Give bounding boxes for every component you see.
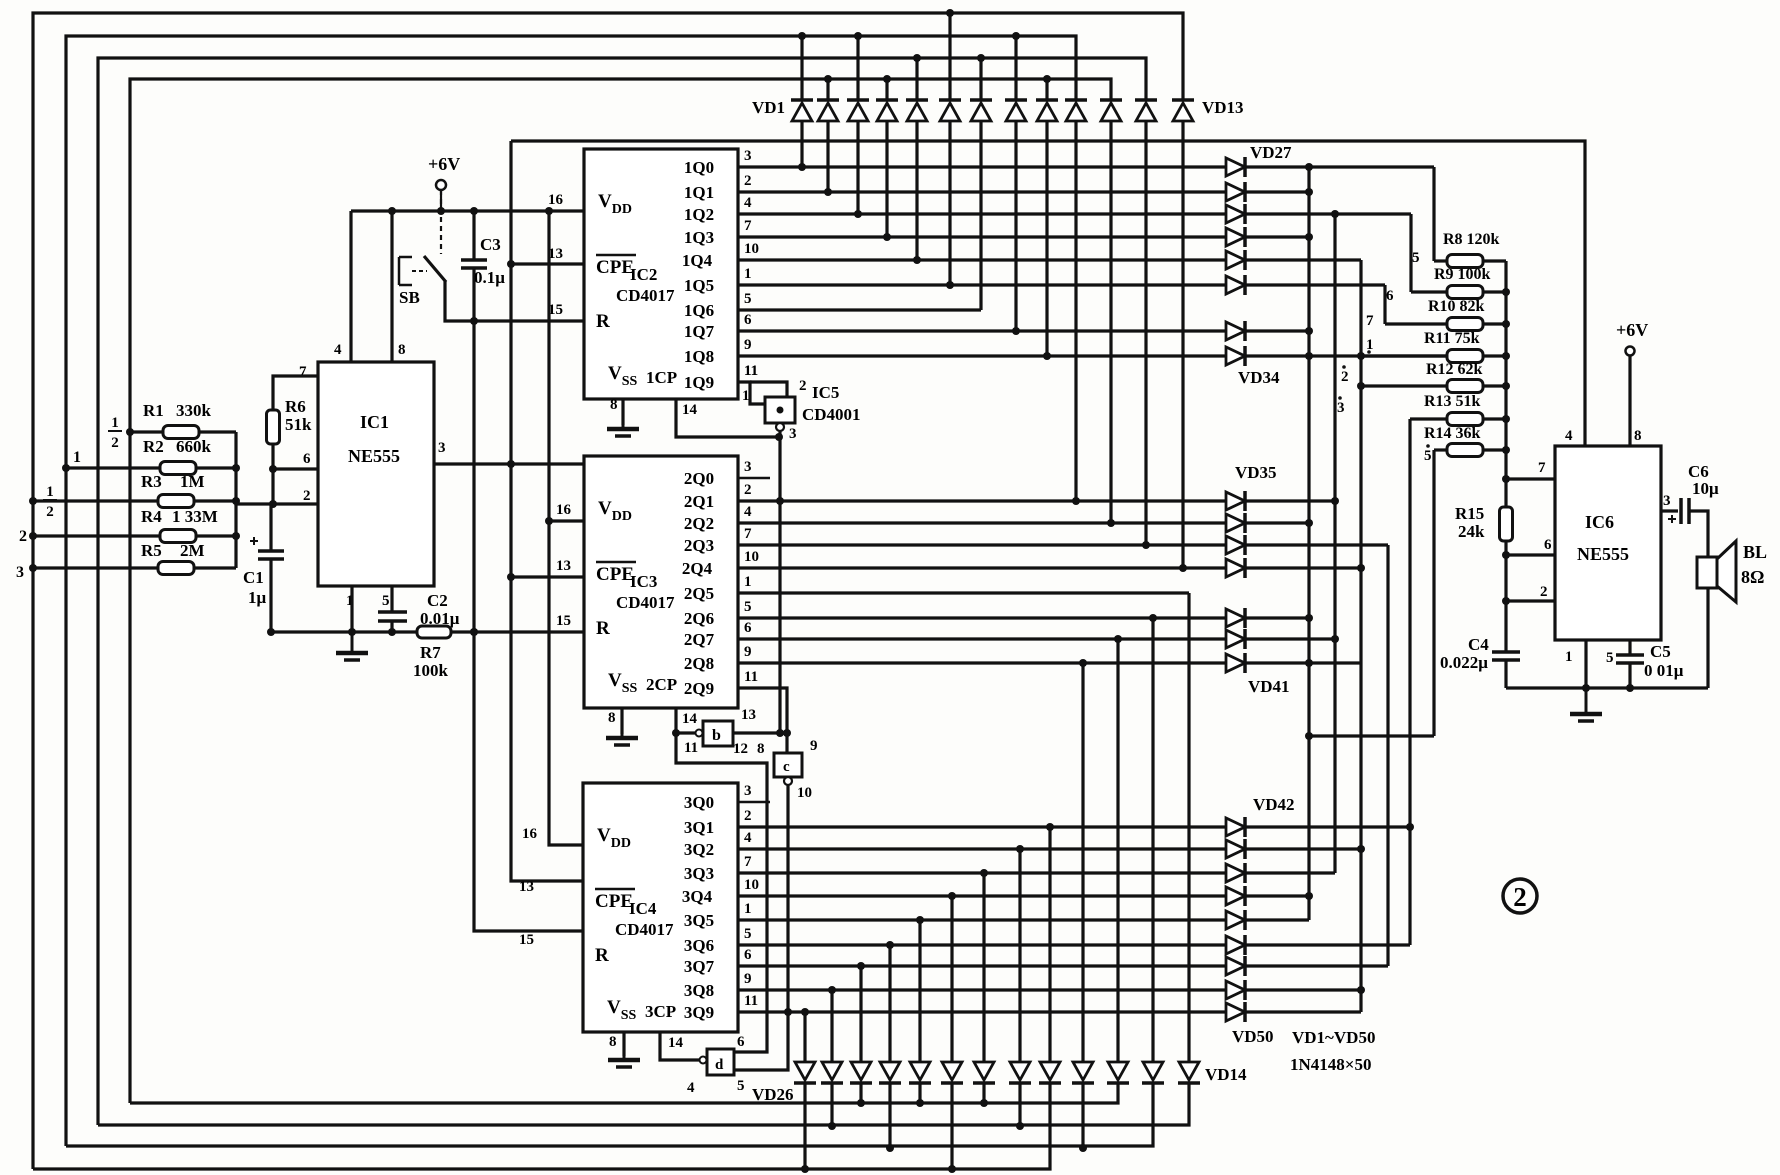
svg-text:7: 7 — [744, 854, 752, 870]
wire - VD1 anode to 1Q0 row — [800, 121, 803, 167]
speaker BL — [1697, 557, 1717, 588]
svg-text:R1: R1 — [143, 401, 164, 420]
wire - VD5 cathode stub — [915, 58, 918, 100]
svg-text:R6: R6 — [285, 397, 306, 416]
diode VD28 — [1226, 183, 1245, 201]
diode VD3 — [847, 98, 869, 102]
wire - loop 4 (left/top to VD2,VD4,VD9,VD11 bus) — [130, 79, 1111, 1103]
wire - VD2 anode to 1Q1 row — [826, 121, 829, 192]
wire - 3Q0 stub — [738, 801, 770, 804]
wire - 2Q0 stub — [738, 477, 770, 480]
node C3 ground-rail crossing — [470, 628, 478, 636]
svg-text:3: 3 — [744, 783, 752, 799]
svg-text:4: 4 — [744, 830, 752, 846]
diode VD44 — [1226, 864, 1245, 882]
svg-text:R: R — [595, 945, 609, 966]
wire - IC6 pin2 stub — [1506, 599, 1555, 602]
svg-text:12: 12 — [733, 741, 748, 757]
gate IC5a output bubble — [776, 423, 784, 431]
diode VD45 — [1226, 887, 1245, 905]
svg-text:VD42: VD42 — [1253, 795, 1295, 814]
svg-text:2CP: 2CP — [646, 675, 677, 694]
wire - R9 link (x1411) — [1409, 214, 1412, 292]
svg-text:6: 6 — [1544, 537, 1552, 553]
svg-text:5: 5 — [744, 599, 752, 615]
svg-text:IC2: IC2 — [630, 265, 657, 284]
wire - R11 left lead — [1361, 354, 1447, 357]
diode VD12 — [1135, 98, 1157, 102]
svg-text:11: 11 — [744, 669, 758, 685]
wire - collector bus A (x1309) — [1307, 167, 1310, 920]
svg-text:3Q5: 3Q5 — [684, 911, 714, 930]
junction dots bus C — [1357, 352, 1365, 994]
svg-text:VD1: VD1 — [752, 98, 785, 117]
wire - IC4 VSS stem — [622, 1032, 625, 1056]
svg-text:R4: R4 — [141, 507, 162, 526]
resistor R9 — [1447, 286, 1483, 299]
diode VD48 — [1226, 957, 1245, 975]
wire - C3 bottom lead down to IC4 R — [474, 268, 584, 931]
diode VD14 — [1179, 1062, 1199, 1080]
ground - IC2 VSS — [622, 425, 625, 429]
gate b input bubble — [696, 730, 703, 737]
diode VD4 — [876, 98, 898, 102]
node 2CP/chain — [672, 729, 680, 737]
wire - VD5 anode to 1Q4 row — [915, 121, 918, 260]
svg-text:11: 11 — [684, 740, 698, 756]
svg-text:1: 1 — [744, 901, 752, 917]
svg-text:3Q0: 3Q0 — [684, 793, 714, 812]
node pin3/CPE bus — [507, 460, 515, 468]
junction dots on bank bus — [232, 464, 240, 540]
svg-text:1M: 1M — [180, 472, 205, 491]
wire - VD15 to 2Q6 row — [1151, 618, 1154, 1062]
wire - R14 right lead — [1483, 448, 1506, 451]
svg-text:2: 2 — [744, 808, 752, 824]
wire - IC6 ground rail — [1506, 686, 1708, 689]
svg-text:3Q4: 3Q4 — [682, 887, 713, 906]
svg-text:+6V: +6V — [428, 154, 460, 174]
svg-text:c: c — [783, 759, 790, 775]
wire - 2Q8 row — [738, 661, 1361, 664]
wire - C5 bottom lead — [1628, 663, 1631, 688]
svg-text:5: 5 — [1424, 448, 1432, 464]
wire - IC1 pin4 up to VDD rail — [349, 211, 352, 362]
wire - pin2 node from bank — [236, 501, 318, 504]
junction dots on top bus lines — [798, 9, 1051, 83]
svg-text:2: 2 — [744, 173, 752, 189]
wire - R3 left lead — [33, 499, 158, 502]
junction dots VD10-VD13 anodes on 2Q rows — [1072, 497, 1187, 572]
wire - bus A to R14 bottom link — [1309, 734, 1434, 737]
svg-text:13: 13 — [519, 879, 534, 895]
svg-text:2: 2 — [111, 435, 119, 451]
node 2Q9/gate-b out — [783, 729, 791, 737]
svg-text:1Q0: 1Q0 — [684, 158, 714, 177]
gate IC5c box — [774, 753, 802, 777]
wire - VD9 cathode stub — [1045, 79, 1048, 100]
svg-text:0.022μ: 0.022μ — [1440, 653, 1488, 672]
diode VD38 — [1226, 559, 1245, 577]
svg-text:CPE: CPE — [596, 564, 634, 585]
junction dots VD17,VD16,VD15 on 2Q rows — [1079, 614, 1157, 667]
wire - 1Q3 row — [738, 235, 1309, 238]
wire - 2Q4 row — [738, 566, 1361, 569]
junction dots bus B — [1331, 210, 1339, 643]
wire - R13 right lead — [1483, 417, 1506, 420]
resistor R7 — [417, 626, 451, 638]
wire - VD22 to 3Q5 row — [918, 920, 921, 1062]
capacitor C2 — [378, 610, 407, 614]
wire - R3 right lead — [194, 499, 236, 502]
wire - R14 left lead — [1434, 448, 1447, 451]
wire - 3Q4 row — [738, 894, 1309, 897]
svg-text:1Q2: 1Q2 — [684, 205, 714, 224]
diode VD15 — [1143, 1062, 1163, 1080]
node R4-loop1 — [29, 532, 37, 540]
svg-text:VD27: VD27 — [1250, 143, 1292, 162]
svg-text:VD26: VD26 — [752, 1085, 794, 1104]
figure number circled 2 — [1503, 879, 1537, 913]
diode VD32 — [1226, 276, 1245, 294]
diode VD26 — [795, 1062, 815, 1080]
ground - IC6 — [1585, 688, 1588, 714]
capacitor C1 — [258, 549, 284, 553]
svg-text:6: 6 — [303, 451, 311, 467]
wire - 1Q8 row — [738, 354, 1449, 357]
diode VD49 — [1226, 981, 1245, 999]
wire - +6V to VDD rail — [440, 190, 442, 211]
diode VD20 — [974, 1062, 994, 1080]
gate IC5c output bubble — [784, 777, 792, 785]
svg-text:51k: 51k — [285, 415, 312, 434]
diode VD29 — [1226, 205, 1245, 223]
svg-text:5: 5 — [744, 926, 752, 942]
resistor R10 — [1447, 318, 1483, 331]
resistor R3 — [158, 495, 194, 508]
wire - VD1 cathode stub — [800, 36, 803, 100]
wire - VD21 to 3Q4 row — [950, 896, 953, 1062]
wire - R13 left lead — [1410, 417, 1447, 420]
wire - C6 to speaker — [1689, 511, 1708, 557]
op-amp U IC6 box (NE555) — [1555, 446, 1661, 640]
wire - VD3 cathode stub — [856, 36, 859, 100]
svg-text:IC5: IC5 — [812, 383, 839, 402]
svg-text:15: 15 — [556, 613, 571, 629]
wire - IC6 pin7 stub — [1506, 477, 1555, 480]
resistor R1 — [163, 426, 199, 439]
svg-text:2Q5: 2Q5 — [684, 584, 714, 603]
svg-text:R: R — [596, 618, 610, 639]
svg-text:13: 13 — [741, 707, 756, 723]
wire - IC3 pin16 stub — [549, 519, 584, 522]
wire - IC4 3CP to gate d — [660, 1032, 707, 1060]
diode VD35 — [1226, 492, 1245, 510]
wire - C2 bottom lead — [390, 621, 393, 632]
diode VD40 — [1226, 630, 1245, 648]
svg-text:1μ: 1μ — [248, 588, 267, 607]
wire - VD11 anode to 2Q2 row — [1109, 121, 1112, 523]
svg-text:VD14: VD14 — [1205, 1065, 1247, 1084]
svg-text:3Q1: 3Q1 — [684, 818, 714, 837]
wire - 2Q9 stub to node — [738, 688, 787, 753]
wire - 2Q2 row — [738, 521, 1309, 524]
svg-text:2Q0: 2Q0 — [684, 469, 714, 488]
wire - 2Q1 row — [738, 499, 1335, 502]
svg-text:R14 36k: R14 36k — [1424, 425, 1481, 442]
capacitor C4 — [1492, 652, 1520, 660]
svg-text:R9 100k: R9 100k — [1434, 266, 1491, 283]
wire - 1Q9 to gate a pin2 hook — [750, 382, 787, 397]
wire - 3Q9 row — [738, 1010, 1361, 1013]
wire - collector bus B (x1335) — [1333, 214, 1336, 873]
svg-text:6: 6 — [744, 947, 752, 963]
diode VD46 — [1226, 911, 1245, 929]
svg-text:0.1μ: 0.1μ — [474, 268, 505, 287]
svg-text:1Q9: 1Q9 — [684, 373, 714, 392]
wire - 1Q4 row — [738, 258, 1361, 261]
resistor R11 — [1447, 350, 1483, 363]
wire - VDD bus vertical — [549, 211, 584, 845]
wire - 3Q1 row — [738, 825, 1410, 828]
wire - VD20 to 3Q3 row — [982, 873, 985, 1062]
wire - IC2 1CP down — [676, 399, 779, 437]
wire - speaker bottom to rail — [1706, 588, 1709, 688]
svg-text:2M: 2M — [180, 541, 205, 560]
diode VD50 — [1226, 1003, 1245, 1021]
diode VD36 — [1226, 514, 1245, 532]
wire - C4 bottom to gnd rail — [1504, 660, 1507, 688]
wire - gate c output down to gate d — [733, 785, 788, 1070]
svg-text:IC3: IC3 — [630, 572, 657, 591]
resistor R5 — [158, 562, 194, 575]
svg-text:1Q1: 1Q1 — [684, 183, 714, 202]
svg-text:7: 7 — [744, 218, 752, 234]
svg-text:BL: BL — [1743, 542, 1767, 562]
wire - R12 right lead — [1483, 384, 1506, 387]
diode VD13 — [1172, 98, 1194, 102]
wire - bottom diode cathode stub — [888, 1083, 891, 1148]
svg-text:3: 3 — [744, 148, 752, 164]
wire - IC3 VSS stem — [620, 708, 623, 734]
svg-text:16: 16 — [548, 192, 564, 208]
op-amp U IC1 box (NE555) — [318, 362, 434, 586]
capacitor C6 (polarized) — [1681, 498, 1689, 524]
svg-text:2: 2 — [744, 482, 752, 498]
wire - R7 rail to IC3 pin15 (R) — [474, 630, 584, 633]
svg-text:2Q8: 2Q8 — [684, 654, 714, 673]
junction dots bottom diodes on 3Q rows — [801, 823, 1054, 1016]
svg-text:+6V: +6V — [1616, 320, 1648, 340]
svg-text:5: 5 — [737, 1078, 745, 1094]
svg-text:3Q3: 3Q3 — [684, 864, 714, 883]
wire - R6 bottom to pin6 node — [271, 444, 274, 505]
wire - 1Q6 row — [738, 308, 981, 311]
wire - R11 right lead — [1483, 354, 1506, 357]
wire - IC6 pin1 down — [1584, 640, 1587, 688]
wire - IC2 VSS stem — [621, 399, 624, 425]
svg-text:VD34: VD34 — [1238, 368, 1280, 387]
svg-text:1Q7: 1Q7 — [684, 322, 715, 341]
wire - VDD rail to IC2 pin16 — [351, 209, 584, 212]
wire - R2 left lead — [66, 466, 160, 469]
svg-text:2: 2 — [303, 488, 311, 504]
wire - gate b output — [733, 731, 787, 734]
svg-text:3Q7: 3Q7 — [684, 957, 715, 976]
diode VD8 — [1005, 98, 1027, 102]
wire - IC1 pin1 down — [350, 586, 353, 632]
svg-text:2Q1: 2Q1 — [684, 492, 714, 511]
svg-text:10: 10 — [744, 549, 759, 565]
wire - 1Q2 row — [738, 212, 1411, 215]
diode VD18 — [1040, 1062, 1060, 1080]
wire - 3Q3 row — [738, 871, 1335, 874]
resistor R4 — [160, 530, 196, 543]
svg-text:6: 6 — [744, 620, 752, 636]
svg-text:8: 8 — [757, 741, 765, 757]
diode VD19 — [1010, 1062, 1030, 1080]
svg-text:1CP: 1CP — [646, 368, 677, 387]
svg-text:10: 10 — [744, 241, 759, 257]
diode VD10 — [1065, 98, 1087, 102]
svg-text:CPE: CPE — [596, 257, 634, 278]
svg-text:VD13: VD13 — [1202, 98, 1244, 117]
diode VD33 — [1226, 322, 1245, 340]
wire - VD4 anode to 1Q3 row — [885, 121, 888, 237]
diode VD27 — [1226, 158, 1245, 176]
ground - IC3 VSS — [621, 734, 624, 738]
wire - C1 top lead — [269, 504, 272, 551]
svg-text:IC6: IC6 — [1585, 512, 1614, 532]
wire - R2 right lead — [196, 466, 236, 469]
diode VD23 — [880, 1062, 900, 1080]
svg-text:3: 3 — [438, 440, 446, 456]
diode VD39 — [1226, 609, 1245, 627]
wire - 1Q9 stub to gate a — [738, 382, 765, 404]
diode VD9 — [1036, 98, 1058, 102]
capacitor C5 — [1616, 655, 1644, 663]
wire - R13 link (x1410) — [1408, 419, 1411, 945]
svg-text:8: 8 — [1634, 428, 1642, 444]
svg-text:R15: R15 — [1455, 504, 1484, 523]
svg-text:3: 3 — [1663, 493, 1671, 509]
resistor R13 — [1447, 413, 1483, 426]
svg-text:1Q6: 1Q6 — [684, 301, 714, 320]
svg-text:5: 5 — [744, 291, 752, 307]
svg-text:1Q8: 1Q8 — [684, 347, 714, 366]
node VDD bus IC3 16 — [545, 517, 553, 525]
wire - C1 bottom lead to ground rail — [269, 559, 272, 632]
svg-text:4: 4 — [334, 342, 342, 358]
svg-text:1N4148×50: 1N4148×50 — [1290, 1055, 1371, 1074]
resistor R12 — [1447, 380, 1483, 393]
svg-text:b: b — [712, 727, 721, 744]
svg-text:C5: C5 — [1650, 642, 1671, 661]
svg-text:C2: C2 — [427, 591, 448, 610]
wire - IC3 pin13 stub — [511, 575, 584, 578]
wire - resistor bank right bus — [234, 432, 237, 568]
node gate-a bus join — [776, 729, 784, 737]
svg-text:R2: R2 — [143, 437, 164, 456]
wire - bottom diode cathode stub — [950, 1083, 953, 1169]
wire - R9 left lead — [1411, 290, 1447, 293]
junction dots on bottom bus lines — [801, 1099, 1087, 1173]
diode VD22 — [910, 1062, 930, 1080]
wire - IC6 pin5 down — [1628, 640, 1631, 655]
wire - outer loop 1 bottom (to VD22 bus) — [33, 1083, 1050, 1169]
wire - 3Q8 row — [738, 988, 1361, 991]
svg-text:IC4: IC4 — [629, 899, 657, 918]
svg-text:1: 1 — [46, 484, 54, 500]
svg-text:R13 51k: R13 51k — [1424, 393, 1481, 410]
wire - VD25 to 3Q8 row — [830, 990, 833, 1062]
wire - R ladder right bus down — [1504, 261, 1507, 652]
svg-text:1 33M: 1 33M — [172, 507, 218, 526]
wire - VD8 anode to 1Q7 row — [1014, 121, 1017, 331]
wire - R8 right lead — [1483, 259, 1506, 262]
gate IC5a box — [765, 397, 795, 423]
junction dots on VDD rail — [388, 207, 553, 215]
svg-text:2: 2 — [799, 378, 807, 394]
node R13 bus 3Q1 — [1406, 823, 1414, 831]
svg-text:R10 82k: R10 82k — [1428, 298, 1485, 315]
svg-text:3: 3 — [1337, 400, 1345, 416]
wire - CPE bus vertical — [511, 141, 584, 881]
svg-text:15: 15 — [519, 932, 534, 948]
terminal circle +6V — [436, 180, 446, 190]
wire - gate a output bus down — [778, 431, 781, 732]
diode VD7 — [970, 98, 992, 102]
svg-text:2Q3: 2Q3 — [684, 536, 714, 555]
svg-text:14: 14 — [668, 1035, 684, 1051]
wire - VD19 to 3Q2 row — [1018, 849, 1021, 1062]
wire - 1Q5 row — [738, 283, 1385, 286]
svg-text:C4: C4 — [1468, 635, 1489, 654]
wire - loop 2 bottom (to VD25 bus) — [66, 1083, 1153, 1146]
node R2-loop2 — [62, 464, 70, 472]
wire - bottom diode cathode stub — [982, 1083, 985, 1103]
wire - 1Q7 row — [738, 329, 1309, 332]
diode VD2 — [817, 98, 839, 102]
wire - IC6 pin3 stub — [1661, 509, 1678, 512]
wire - VD26 to 3Q9 row — [803, 1012, 806, 1062]
diode VD47 — [1226, 936, 1245, 954]
svg-text:13: 13 — [556, 558, 571, 574]
diode VD30 — [1226, 228, 1245, 246]
wire - IC1 pin8 up to VDD rail — [390, 211, 393, 362]
wire - VD12 anode to 2Q3 row — [1144, 121, 1147, 545]
svg-text:100k: 100k — [413, 661, 449, 680]
wire - 1Q1 row — [738, 190, 1309, 193]
wire - 2Q6 row — [738, 616, 1309, 619]
wire - loop 4 bottom (to VD24 bus) — [130, 1083, 1118, 1103]
wire - VD3 anode to 1Q2 row — [856, 121, 859, 214]
wire - R4 left lead — [33, 534, 160, 537]
wire - R1 right lead — [199, 430, 236, 433]
svg-text:3Q9: 3Q9 — [684, 1003, 714, 1022]
diode VD41 — [1226, 654, 1245, 672]
svg-text:10μ: 10μ — [1692, 479, 1719, 498]
ground - IC1 — [351, 632, 354, 653]
svg-text:VD41: VD41 — [1248, 677, 1290, 696]
svg-text:CD4017: CD4017 — [615, 920, 674, 939]
svg-text:C1: C1 — [243, 568, 264, 587]
junction dots R bus — [1502, 288, 1510, 605]
wire - chain from 2CP down to gate d pin 6 — [676, 733, 767, 1052]
svg-text:CD4001: CD4001 — [802, 405, 861, 424]
terminal circle +6V right — [1626, 347, 1635, 356]
svg-text:2Q4: 2Q4 — [682, 559, 713, 578]
